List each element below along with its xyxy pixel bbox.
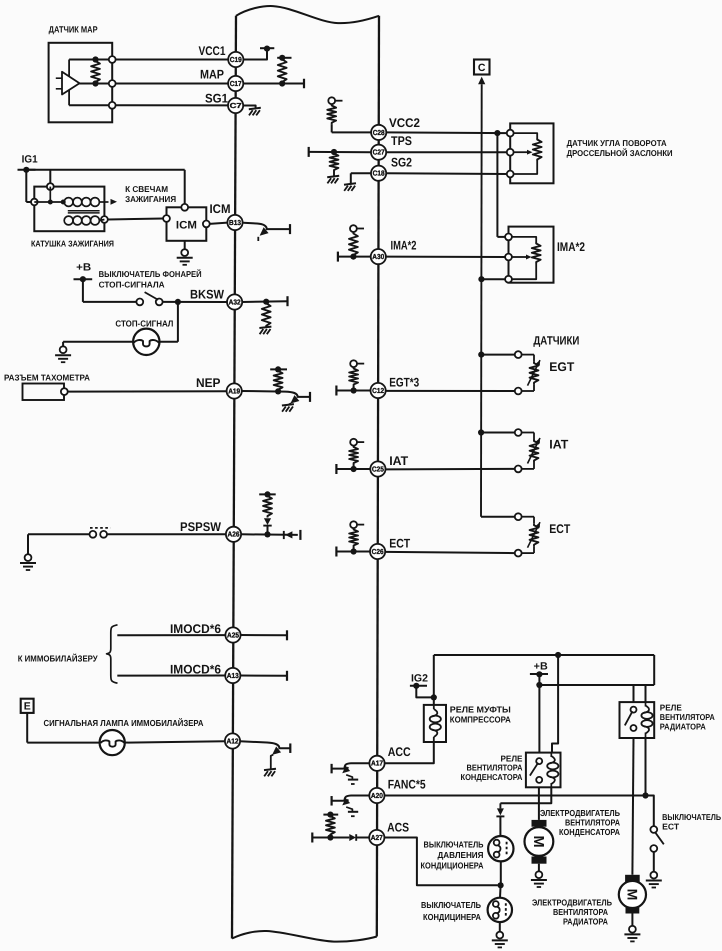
svg-text:IMOCD*6: IMOCD*6 [170, 622, 221, 636]
svg-text:VCC2: VCC2 [389, 116, 420, 130]
svg-text:+В: +В [76, 262, 91, 274]
svg-text:A17: A17 [371, 759, 383, 768]
svg-text:КОНДИЦИНЕРА: КОНДИЦИНЕРА [423, 912, 482, 922]
svg-text:PSPSW: PSPSW [180, 520, 221, 534]
svg-text:ВЕНТИЛЯТОРА: ВЕНТИЛЯТОРА [565, 818, 621, 828]
svg-text:BKSW: BKSW [190, 288, 224, 302]
svg-text:A26: A26 [228, 530, 240, 539]
svg-text:IMA*2: IMA*2 [391, 239, 417, 253]
svg-text:VCC1: VCC1 [199, 44, 226, 58]
svg-text:C25: C25 [372, 464, 384, 473]
svg-text:C: C [478, 62, 486, 74]
svg-text:ВЫКЛЮЧАТЕЛЬ ФОНАРЕЙ: ВЫКЛЮЧАТЕЛЬ ФОНАРЕЙ [99, 269, 202, 279]
svg-text:ДАВЛЕНИЯ: ДАВЛЕНИЯ [438, 850, 484, 860]
svg-text:EGT*3: EGT*3 [389, 375, 419, 389]
svg-text:ЕСТ: ЕСТ [662, 822, 680, 832]
svg-text:IG2: IG2 [411, 672, 428, 684]
svg-text:+В: +В [534, 661, 548, 673]
svg-text:ЭЛЕКТРОДВИГАТЕЛЬ: ЭЛЕКТРОДВИГАТЕЛЬ [532, 897, 612, 907]
svg-text:TPS: TPS [391, 134, 412, 148]
svg-text:РАДИАТОРА: РАДИАТОРА [563, 917, 609, 927]
svg-text:ECT: ECT [389, 536, 410, 550]
svg-text:КОМПРЕССОРА: КОМПРЕССОРА [450, 715, 512, 725]
svg-text:КОНДИЦИОНЕРА: КОНДИЦИОНЕРА [421, 860, 485, 870]
svg-text:M: M [530, 835, 546, 847]
svg-text:IAT: IAT [549, 438, 568, 452]
svg-text:C19: C19 [230, 55, 242, 64]
svg-text:ICM: ICM [210, 202, 231, 216]
svg-text:A20: A20 [371, 791, 383, 800]
svg-text:КОНДЕНСАТОРА: КОНДЕНСАТОРА [559, 827, 621, 837]
svg-text:ACS: ACS [387, 820, 409, 834]
svg-text:СТОП-СИГНАЛА: СТОП-СИГНАЛА [99, 279, 165, 289]
svg-text:IMOCD*6: IMOCD*6 [170, 662, 221, 676]
svg-text:C7: C7 [230, 101, 242, 110]
svg-text:СИГНАЛЬНАЯ ЛАМПА ИММОБИЛАЙЗЕРА: СИГНАЛЬНАЯ ЛАМПА ИММОБИЛАЙЗЕРА [44, 718, 205, 728]
svg-text:ЭЛЕКТРОДВИГАТЕЛЬ: ЭЛЕКТРОДВИГАТЕЛЬ [540, 808, 620, 818]
svg-text:C17: C17 [230, 79, 242, 88]
svg-text:FANC*5: FANC*5 [388, 777, 426, 791]
svg-text:A12: A12 [227, 736, 239, 745]
svg-text:A32: A32 [229, 297, 241, 306]
svg-text:К СВЕЧАМ: К СВЕЧАМ [125, 184, 168, 194]
svg-text:К ИММОБИЛАЙЗЕРУ: К ИММОБИЛАЙЗЕРУ [18, 654, 99, 664]
svg-text:C26: C26 [372, 547, 384, 556]
svg-text:ДАТЧИК MAP: ДАТЧИК MAP [49, 24, 98, 34]
svg-text:SG1: SG1 [205, 91, 228, 105]
svg-text:NEP: NEP [196, 376, 221, 390]
svg-text:C28: C28 [373, 128, 385, 137]
svg-text:КОНДЕНСАТОРА: КОНДЕНСАТОРА [461, 772, 523, 782]
svg-text:C18: C18 [373, 169, 385, 178]
svg-text:SG2: SG2 [391, 155, 412, 169]
svg-text:ВЫКЛЮЧАТЕЛЬ: ВЫКЛЮЧАТЕЛЬ [424, 839, 484, 849]
svg-text:IMA*2: IMA*2 [557, 240, 585, 254]
svg-text:MAP: MAP [200, 67, 224, 81]
svg-text:IAT: IAT [389, 454, 408, 468]
svg-text:РАДИАТОРА: РАДИАТОРА [660, 721, 706, 731]
svg-text:ДРОССЕЛЬНОЙ ЗАСЛОНКИ: ДРОССЕЛЬНОЙ ЗАСЛОНКИ [567, 148, 673, 158]
svg-text:IG1: IG1 [22, 154, 38, 166]
svg-text:C12: C12 [372, 386, 384, 395]
svg-text:E: E [24, 701, 31, 713]
svg-text:ACC: ACC [388, 745, 411, 759]
svg-text:СТОП-СИГНАЛ: СТОП-СИГНАЛ [115, 318, 173, 328]
svg-text:ECT: ECT [549, 522, 570, 536]
svg-text:B13: B13 [229, 218, 241, 227]
svg-text:ВЫКЛЮЧАТЕЛЬ: ВЫКЛЮЧАТЕЛЬ [421, 900, 481, 910]
svg-text:A25: A25 [227, 630, 239, 639]
svg-text:A27: A27 [371, 833, 383, 842]
svg-text:A13: A13 [227, 671, 239, 680]
svg-text:EGT: EGT [549, 360, 574, 374]
svg-text:C27: C27 [373, 148, 385, 157]
svg-text:M: M [624, 889, 640, 901]
svg-text:ВЕНТИЛЯТОРА: ВЕНТИЛЯТОРА [553, 907, 609, 917]
svg-text:РАЗЪЕМ ТАХОМЕТРА: РАЗЪЕМ ТАХОМЕТРА [4, 372, 90, 382]
svg-text:ICM: ICM [176, 220, 197, 232]
svg-text:A30: A30 [372, 252, 384, 261]
svg-text:A19: A19 [228, 386, 240, 395]
svg-text:ДАТЧИК УГЛА ПОВОРОТА: ДАТЧИК УГЛА ПОВОРОТА [567, 138, 667, 148]
svg-text:РЕЛЕ МУФТЫ: РЕЛЕ МУФТЫ [450, 705, 511, 715]
svg-text:ДАТЧИКИ: ДАТЧИКИ [533, 334, 579, 348]
svg-text:КАТУШКА ЗАЖИГАНИЯ: КАТУШКА ЗАЖИГАНИЯ [31, 238, 114, 248]
svg-text:ЗАЖИГАНИЯ: ЗАЖИГАНИЯ [125, 194, 176, 204]
